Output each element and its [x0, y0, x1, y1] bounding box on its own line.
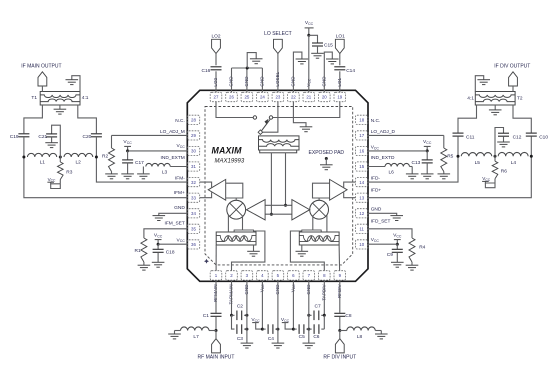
wire IFD- pin14 to node Cr: [368, 156, 458, 182]
pin 4 box (bottom row): [257, 271, 269, 280]
VCC supply pin36: [154, 232, 163, 244]
wire C14 to pin19: [339, 71, 341, 92]
svg-text:IFM_SET: IFM_SET: [165, 221, 185, 227]
svg-text:R4: R4: [419, 244, 425, 250]
wire IF amp main upper input loop: [226, 183, 243, 198]
svg-text:C12: C12: [513, 134, 522, 140]
wire LO2 to C16: [215, 54, 217, 66]
pin 35 name label: [165, 221, 185, 227]
junction dot pin5: [276, 328, 279, 331]
pin 8 box (bottom row): [319, 271, 331, 280]
pin 7 name label: [306, 284, 311, 295]
svg-text:26: 26: [229, 95, 234, 100]
svg-text:36: 36: [191, 242, 196, 247]
svg-text:14: 14: [359, 180, 364, 185]
capacitor C11: [453, 133, 475, 140]
capacitor C20: [82, 134, 101, 140]
svg-text:11: 11: [359, 227, 364, 232]
pin 33 box (left column): [187, 193, 199, 202]
svg-text:IF DIV OUTPUT: IF DIV OUTPUT: [494, 64, 530, 70]
svg-text:L5: L5: [475, 160, 481, 166]
wire pin14 to IF amp div: [344, 182, 356, 187]
pin 6 box (bottom row): [288, 271, 300, 280]
capacitor C9: [387, 244, 403, 262]
svg-text:L6: L6: [389, 170, 395, 176]
IF amp main (points left): [208, 179, 226, 200]
svg-text:C1: C1: [203, 313, 209, 319]
svg-text:24: 24: [260, 95, 265, 100]
svg-text:LO_ADJ_D: LO_ADJ_D: [371, 129, 396, 135]
ground pin20 top: [326, 59, 339, 64]
ground pin5: [272, 343, 285, 348]
svg-text:IFM-: IFM-: [175, 176, 185, 182]
pin 19 box (top row): [334, 92, 346, 101]
junction dot pin8: [323, 314, 326, 317]
svg-text:L1: L1: [40, 159, 46, 165]
LO SELECT input connector: [264, 31, 292, 54]
wire VCC to pin30: [128, 150, 188, 152]
svg-text:10: 10: [359, 242, 364, 247]
IC logo MAXIM: [212, 145, 243, 155]
LO2 input connector: [211, 34, 220, 54]
svg-text:LO_ADJ_M: LO_ADJ_M: [160, 129, 185, 135]
capacitor C5: [293, 324, 308, 340]
wire IFM- pin32 to node C: [96, 157, 187, 182]
junction dot node B: [59, 156, 62, 159]
wire pin8 to C6: [323, 315, 325, 329]
wire balun main tap to pin2: [232, 231, 265, 271]
pin 7 box (bottom row): [303, 271, 315, 280]
ground T1 center tap: [54, 105, 67, 114]
exposed pad dot and ground: [320, 157, 333, 170]
wire VCC to pin21: [308, 35, 310, 92]
svg-text:C17: C17: [135, 160, 144, 166]
svg-text:18: 18: [359, 118, 364, 123]
internal ground (pin 22): [300, 127, 313, 132]
IF MAIN OUTPUT connector: [21, 64, 61, 92]
RF balun main (internal): [216, 230, 256, 245]
wire lower rail between LO buffers: [265, 213, 292, 215]
svg-text:4:1: 4:1: [467, 95, 474, 101]
junction dot gnd bus: [246, 67, 249, 70]
wire pin33 to IF amp main: [200, 192, 212, 197]
pin 33 name label: [174, 190, 185, 196]
pin 30 name label: [177, 143, 186, 149]
wire RF div connector: [339, 331, 341, 339]
RF balun div (internal): [299, 230, 339, 245]
LO switch contact B (LO1): [269, 116, 272, 119]
svg-text:EXPOSED PAD: EXPOSED PAD: [309, 150, 345, 156]
pin 26 box (top row): [226, 92, 238, 101]
junction dots pin7 wire: [307, 314, 310, 331]
pin 2 box (bottom row): [226, 271, 238, 280]
svg-text:23: 23: [275, 95, 280, 100]
wire pin22 to internal ground: [293, 102, 306, 127]
svg-text:RF DIV INPUT: RF DIV INPUT: [323, 355, 356, 361]
wire pin2 down: [231, 280, 233, 315]
svg-text:MAXIM: MAXIM: [212, 145, 243, 155]
VCC supply top: [305, 20, 314, 35]
ground for pins 26-24: [247, 53, 262, 68]
svg-text:C21: C21: [38, 134, 47, 140]
pin 13 box (right column): [356, 193, 368, 202]
svg-text:T1: T1: [31, 95, 37, 101]
wire C11 to node Cr: [457, 137, 459, 157]
svg-text:IFD-: IFD-: [371, 175, 381, 181]
pin 22 name label: [290, 76, 295, 87]
VCC supply bottom-mid: [281, 317, 294, 329]
wire IFM+ pin33 to node A: [24, 157, 187, 198]
svg-text:19: 19: [337, 95, 342, 100]
ground C18: [152, 262, 165, 267]
pin 25 box (top row): [241, 92, 253, 101]
svg-text:C4: C4: [268, 336, 274, 342]
junction dot VCC top: [307, 34, 310, 37]
wire LO balun right tail to upper rail: [285, 153, 287, 206]
pin 15 box (right column): [356, 162, 368, 171]
pin 4 name label: [259, 284, 265, 292]
svg-text:N.C.: N.C.: [175, 118, 185, 124]
resistor R1: [135, 238, 147, 265]
wire pin4 down: [261, 280, 263, 329]
wire balun div tap to pin8: [290, 231, 324, 271]
ground T1 secondary: [66, 76, 81, 92]
wire pin5 to ground: [277, 280, 279, 343]
capacitor C13: [411, 151, 432, 174]
LO balun transformer (internal): [259, 136, 300, 153]
pin 3 box (bottom row): [241, 271, 253, 280]
wire pin32 to IF amp main: [200, 182, 212, 187]
inductor L4: [498, 152, 528, 166]
capacitor C17: [122, 151, 144, 174]
wire C8 to node RF div: [339, 317, 341, 331]
capacitor C7: [309, 303, 325, 320]
pin 3 name label: [244, 284, 249, 295]
pin 36 name label: [177, 237, 186, 243]
junction dot VCC pin16: [426, 149, 429, 152]
pin 28 box (left column): [187, 115, 199, 124]
junction dot pin6: [292, 328, 295, 331]
junction dot VCC pin10: [396, 243, 399, 246]
svg-text:C8: C8: [345, 313, 351, 319]
wire LO balun left tail to lower rail: [270, 153, 272, 214]
junction dot pin2/C2: [230, 314, 233, 317]
pin 32 box (left column): [187, 178, 199, 187]
pin 1 box (bottom row): [210, 271, 222, 280]
pin 26 name label: [229, 76, 234, 87]
svg-text:C9: C9: [387, 252, 393, 258]
junction dot node C: [95, 156, 98, 159]
wire pin6 down: [292, 280, 294, 329]
pin 12 name label: [371, 207, 382, 213]
wire pin3 to ground: [246, 280, 248, 343]
resistor R4: [409, 238, 426, 265]
pin 9 box (bottom row): [334, 271, 346, 280]
pin 22 box (top row): [288, 92, 300, 101]
IC part number MAX19993: [215, 159, 245, 165]
pin 21 name label: [306, 78, 312, 86]
capacitor C16: [201, 67, 221, 74]
pin 32 name label: [175, 176, 185, 182]
svg-text:34: 34: [191, 211, 196, 216]
pin 24 box (top row): [257, 92, 269, 101]
wire IF amp div input loop: [313, 183, 330, 198]
junction dot VCC pin30: [126, 149, 129, 152]
svg-text:20: 20: [322, 95, 327, 100]
VCC supply R6: [482, 176, 495, 188]
capacitor C18: [153, 244, 175, 262]
wire C20 to node C: [95, 137, 97, 157]
wire pin11 to R4: [368, 229, 412, 238]
junction dot node A: [22, 156, 25, 159]
wire pin7 to ground: [308, 280, 310, 343]
wire C10 to node Ar: [530, 137, 532, 157]
LO buffer amp right (points right): [292, 200, 310, 220]
svg-text:L4: L4: [511, 160, 517, 166]
LO1 input connector: [335, 34, 345, 54]
svg-text:LO SELECT: LO SELECT: [264, 31, 292, 37]
pin 23 box (top row): [272, 92, 284, 101]
wire IFD+ pin13 to node Ar: [368, 156, 531, 198]
inductor L1: [28, 153, 57, 165]
pin 11 box (right column): [356, 224, 368, 233]
wire pin34 to ground: [159, 213, 188, 215]
wire balun div to pin9: [338, 245, 341, 271]
svg-text:13: 13: [359, 195, 364, 200]
svg-text:C14: C14: [346, 68, 355, 74]
pin 6 name label: [290, 284, 296, 292]
ground L7: [168, 331, 181, 339]
wire mixer div IF output stub: [318, 198, 320, 200]
pin 31 name label: [161, 155, 185, 161]
wire mixer div RF- to balun: [326, 215, 328, 232]
svg-text:R6: R6: [501, 169, 507, 175]
svg-text:21: 21: [306, 95, 311, 100]
ground R1: [138, 265, 151, 270]
svg-text:L8: L8: [357, 334, 363, 340]
wire pin2 to C3: [232, 315, 235, 329]
pin 18 name label: [371, 118, 381, 124]
svg-text:GND: GND: [174, 205, 185, 211]
pin 8 name label: [321, 283, 326, 300]
svg-text:R3: R3: [66, 170, 72, 176]
pin 24 name label: [259, 76, 264, 87]
transformer T2: [467, 92, 523, 106]
mixer left (main) circle-X: [227, 200, 246, 219]
svg-text:32: 32: [191, 180, 196, 185]
wire VCC to pin36: [158, 243, 187, 245]
svg-text:17: 17: [359, 133, 364, 138]
svg-text:IFD_SET: IFD_SET: [371, 219, 391, 225]
svg-text:R2: R2: [102, 154, 108, 160]
junction dot node Cr: [457, 155, 460, 158]
wire pin17 LO_ADJ_D: [368, 134, 444, 136]
capacitor C12: [495, 128, 522, 157]
svg-text:22: 22: [291, 95, 296, 100]
wire RF main connector: [215, 331, 217, 339]
svg-text:GND: GND: [371, 207, 382, 213]
junction dot upper rail: [284, 204, 287, 207]
ground C13: [421, 174, 434, 179]
pin 13 name label: [371, 187, 382, 193]
ground R4: [406, 265, 419, 270]
ground L8: [375, 331, 388, 339]
junction dot RF main node: [215, 329, 218, 332]
exposed pad dashed boundary: [205, 107, 353, 265]
ground C21: [45, 143, 58, 148]
wire VCC to pin10: [368, 243, 397, 245]
pin 23 name label: [275, 71, 280, 86]
pin 19 name label: [337, 77, 342, 86]
wire mixer main IF output stub: [235, 198, 237, 200]
pin 27 box (top row): [210, 92, 222, 101]
RF MAIN INPUT connector: [198, 339, 235, 361]
LO switch pole diamond: [258, 130, 263, 135]
wire pin19 to LO switch contact: [273, 102, 340, 118]
svg-text:28: 28: [191, 118, 196, 123]
svg-text:R5: R5: [447, 154, 453, 160]
resistor R3: [58, 157, 73, 180]
svg-text:T2: T2: [517, 95, 523, 101]
svg-text:30: 30: [191, 149, 196, 154]
pin 1 name label: [213, 284, 218, 302]
pin 16 box (right column): [356, 146, 368, 155]
svg-text:IFD+: IFD+: [371, 187, 382, 193]
svg-text:C6: C6: [313, 334, 319, 340]
transformer T1: [31, 92, 88, 106]
wire upper rail between LO buffers: [265, 204, 292, 206]
svg-text:VCC: VCC: [371, 145, 380, 151]
capacitor C3: [237, 324, 247, 342]
svg-text:29: 29: [191, 133, 196, 138]
RF DIV INPUT connector: [323, 339, 356, 361]
svg-text:C2: C2: [237, 303, 243, 309]
wire VCC to pin16: [368, 150, 427, 152]
wire C19 to node A: [23, 137, 25, 157]
ground pin34: [153, 216, 166, 221]
capacitor C10: [526, 133, 549, 140]
svg-text:IF MAIN OUTPUT: IF MAIN OUTPUT: [21, 64, 61, 70]
pin 34 name label: [174, 205, 185, 211]
pin 5 name label: [275, 284, 280, 295]
svg-text:IND_EXTM: IND_EXTM: [161, 155, 185, 161]
capacitor C14: [334, 67, 355, 74]
wire mixer main RF- to balun: [227, 215, 229, 232]
capacitor C8: [334, 313, 352, 319]
capacitor C19: [10, 134, 30, 140]
junction dot RF div node: [338, 329, 341, 332]
inductor L8: [340, 327, 382, 340]
inductor L5: [461, 153, 492, 167]
ground balun main: [247, 245, 260, 256]
junction dot node Ar: [530, 155, 533, 158]
svg-text:C3: C3: [237, 336, 243, 342]
VCC supply mid-left: [123, 139, 132, 151]
LO switch contact A (LO2): [253, 116, 256, 119]
svg-text:VCC: VCC: [177, 143, 186, 149]
svg-text:L7: L7: [193, 334, 199, 340]
junction dot lower rail: [270, 213, 273, 216]
wire pin35 to R1: [144, 229, 187, 238]
svg-text:C10: C10: [539, 134, 548, 140]
mixer right (diversity) circle-X: [310, 200, 329, 219]
wire balun main to pin1: [215, 245, 217, 271]
junction dot node Br: [494, 155, 497, 158]
inductor L3: [137, 163, 187, 178]
ground T2 secondary: [475, 76, 490, 92]
pin 9 name label: [337, 283, 342, 298]
LO switch arm with arrow: [262, 119, 271, 131]
pin 30 box (left column): [187, 146, 199, 155]
ground pin22 top: [296, 59, 309, 64]
wire LO1 to C14: [339, 54, 341, 66]
wire pin1 to C1: [215, 280, 217, 313]
svg-text:C20: C20: [82, 134, 91, 140]
wire pin22 to top ground: [293, 52, 302, 92]
svg-text:33: 33: [191, 195, 196, 200]
ground C15: [311, 53, 324, 58]
junction dot pin4: [261, 328, 264, 331]
wire pin13 to IF amp div: [344, 192, 356, 197]
svg-text:R1: R1: [135, 248, 141, 254]
pin 12 box (right column): [356, 209, 368, 218]
svg-text:16: 16: [359, 149, 364, 154]
capacitor C2: [232, 303, 247, 320]
VCC supply pin10: [393, 232, 402, 244]
ground pin3: [241, 343, 254, 348]
pin 28 name label: [175, 118, 185, 124]
pin 27 name label: [213, 77, 218, 86]
pin 36 box (left column): [187, 240, 199, 249]
pin 18 box (right column): [356, 115, 368, 124]
svg-text:IFM+: IFM+: [174, 190, 185, 196]
resistor R5: [441, 135, 454, 174]
pin 14 box (right column): [356, 178, 368, 187]
wire T1 right to C20: [78, 105, 97, 133]
pin 29 name label: [160, 129, 185, 135]
inductor L2: [64, 153, 93, 165]
svg-text:RF MAIN INPUT: RF MAIN INPUT: [198, 355, 235, 361]
capacitor C21: [38, 125, 60, 157]
svg-text:15: 15: [359, 164, 364, 169]
svg-text:25: 25: [244, 95, 249, 100]
svg-text:4:1: 4:1: [82, 95, 89, 101]
ground T2 center tap: [489, 105, 502, 115]
pin 21 box (top row): [303, 92, 315, 101]
pin 1 polarity mark: [204, 259, 209, 264]
inductor L6: [368, 163, 412, 175]
svg-text:VCC: VCC: [177, 237, 186, 243]
LO buffer amp left (points left): [246, 200, 265, 220]
IF DIV OUTPUT connector: [494, 64, 530, 92]
svg-text:C18: C18: [166, 249, 175, 255]
svg-text:35: 35: [191, 227, 196, 232]
svg-text:C15: C15: [324, 42, 333, 48]
wire T2 right to C10: [513, 105, 531, 133]
pin 29 box (left column): [187, 131, 199, 140]
pin 20 box (top row): [319, 92, 331, 101]
wire LO SELECT to pin23: [277, 54, 279, 93]
inductor L7: [175, 327, 217, 340]
capacitor C4: [262, 324, 278, 342]
wire mixer div RF+ to balun: [312, 215, 314, 230]
ground R5: [438, 174, 451, 179]
svg-text:VCC: VCC: [371, 237, 380, 243]
junction dot VCC pin36: [157, 243, 160, 246]
svg-text:31: 31: [191, 164, 196, 169]
ground pin12: [390, 216, 403, 221]
pin 20 name label: [321, 76, 326, 87]
